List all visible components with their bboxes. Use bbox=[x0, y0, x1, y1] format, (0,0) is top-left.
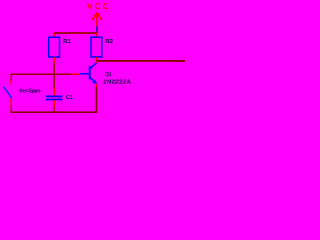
wire capacitor bottom bbox=[53, 100, 55, 107]
svg-text:Q1: Q1 bbox=[105, 72, 112, 78]
wire stub R2 top bbox=[96, 33, 98, 38]
wire R2 bottom to collector bbox=[96, 57, 98, 64]
wire output horizontal bbox=[97, 60, 186, 62]
svg-text:VCC: VCC bbox=[87, 2, 111, 11]
wire emitter vertical bbox=[96, 87, 98, 113]
svg-text:C1: C1 bbox=[66, 95, 73, 101]
switch S1 blade bbox=[4, 87, 13, 99]
wire bottom rail bbox=[11, 111, 98, 113]
base lead bbox=[80, 73, 89, 75]
collector lead bbox=[90, 63, 97, 69]
wire VCC stem lower (dark) bbox=[96, 26, 98, 33]
wire node A to capacitor bbox=[53, 88, 55, 96]
transistor Q1 bbox=[80, 63, 97, 83]
wire switch bottom bbox=[10, 98, 12, 106]
base bar bbox=[89, 66, 91, 80]
wire R1 to node A bbox=[53, 63, 55, 88]
wire base stub (red) bbox=[72, 73, 81, 75]
wire switch top bbox=[10, 74, 12, 81]
wire stub R1 top bbox=[53, 33, 55, 38]
svg-text:R1: R1 bbox=[63, 39, 71, 45]
resistor R2 bbox=[91, 37, 102, 57]
emitter lead bbox=[90, 77, 97, 83]
capacitor C1 top plate bbox=[46, 95, 63, 97]
emitter arrowhead bbox=[92, 80, 97, 84]
capacitor C1 bottom plate bbox=[46, 99, 63, 101]
svg-text:R2: R2 bbox=[105, 39, 113, 45]
wire stub R1 bottom bbox=[53, 57, 55, 63]
wire base horizontal bbox=[11, 73, 72, 75]
wire top horizontal rail VCC bbox=[54, 32, 98, 34]
resistor R1 bbox=[49, 37, 60, 57]
svg-text:2N2222A: 2N2222A bbox=[103, 80, 131, 86]
svg-text:Key=Space: Key=Space bbox=[20, 89, 41, 95]
VCC power arrow bbox=[92, 13, 101, 27]
